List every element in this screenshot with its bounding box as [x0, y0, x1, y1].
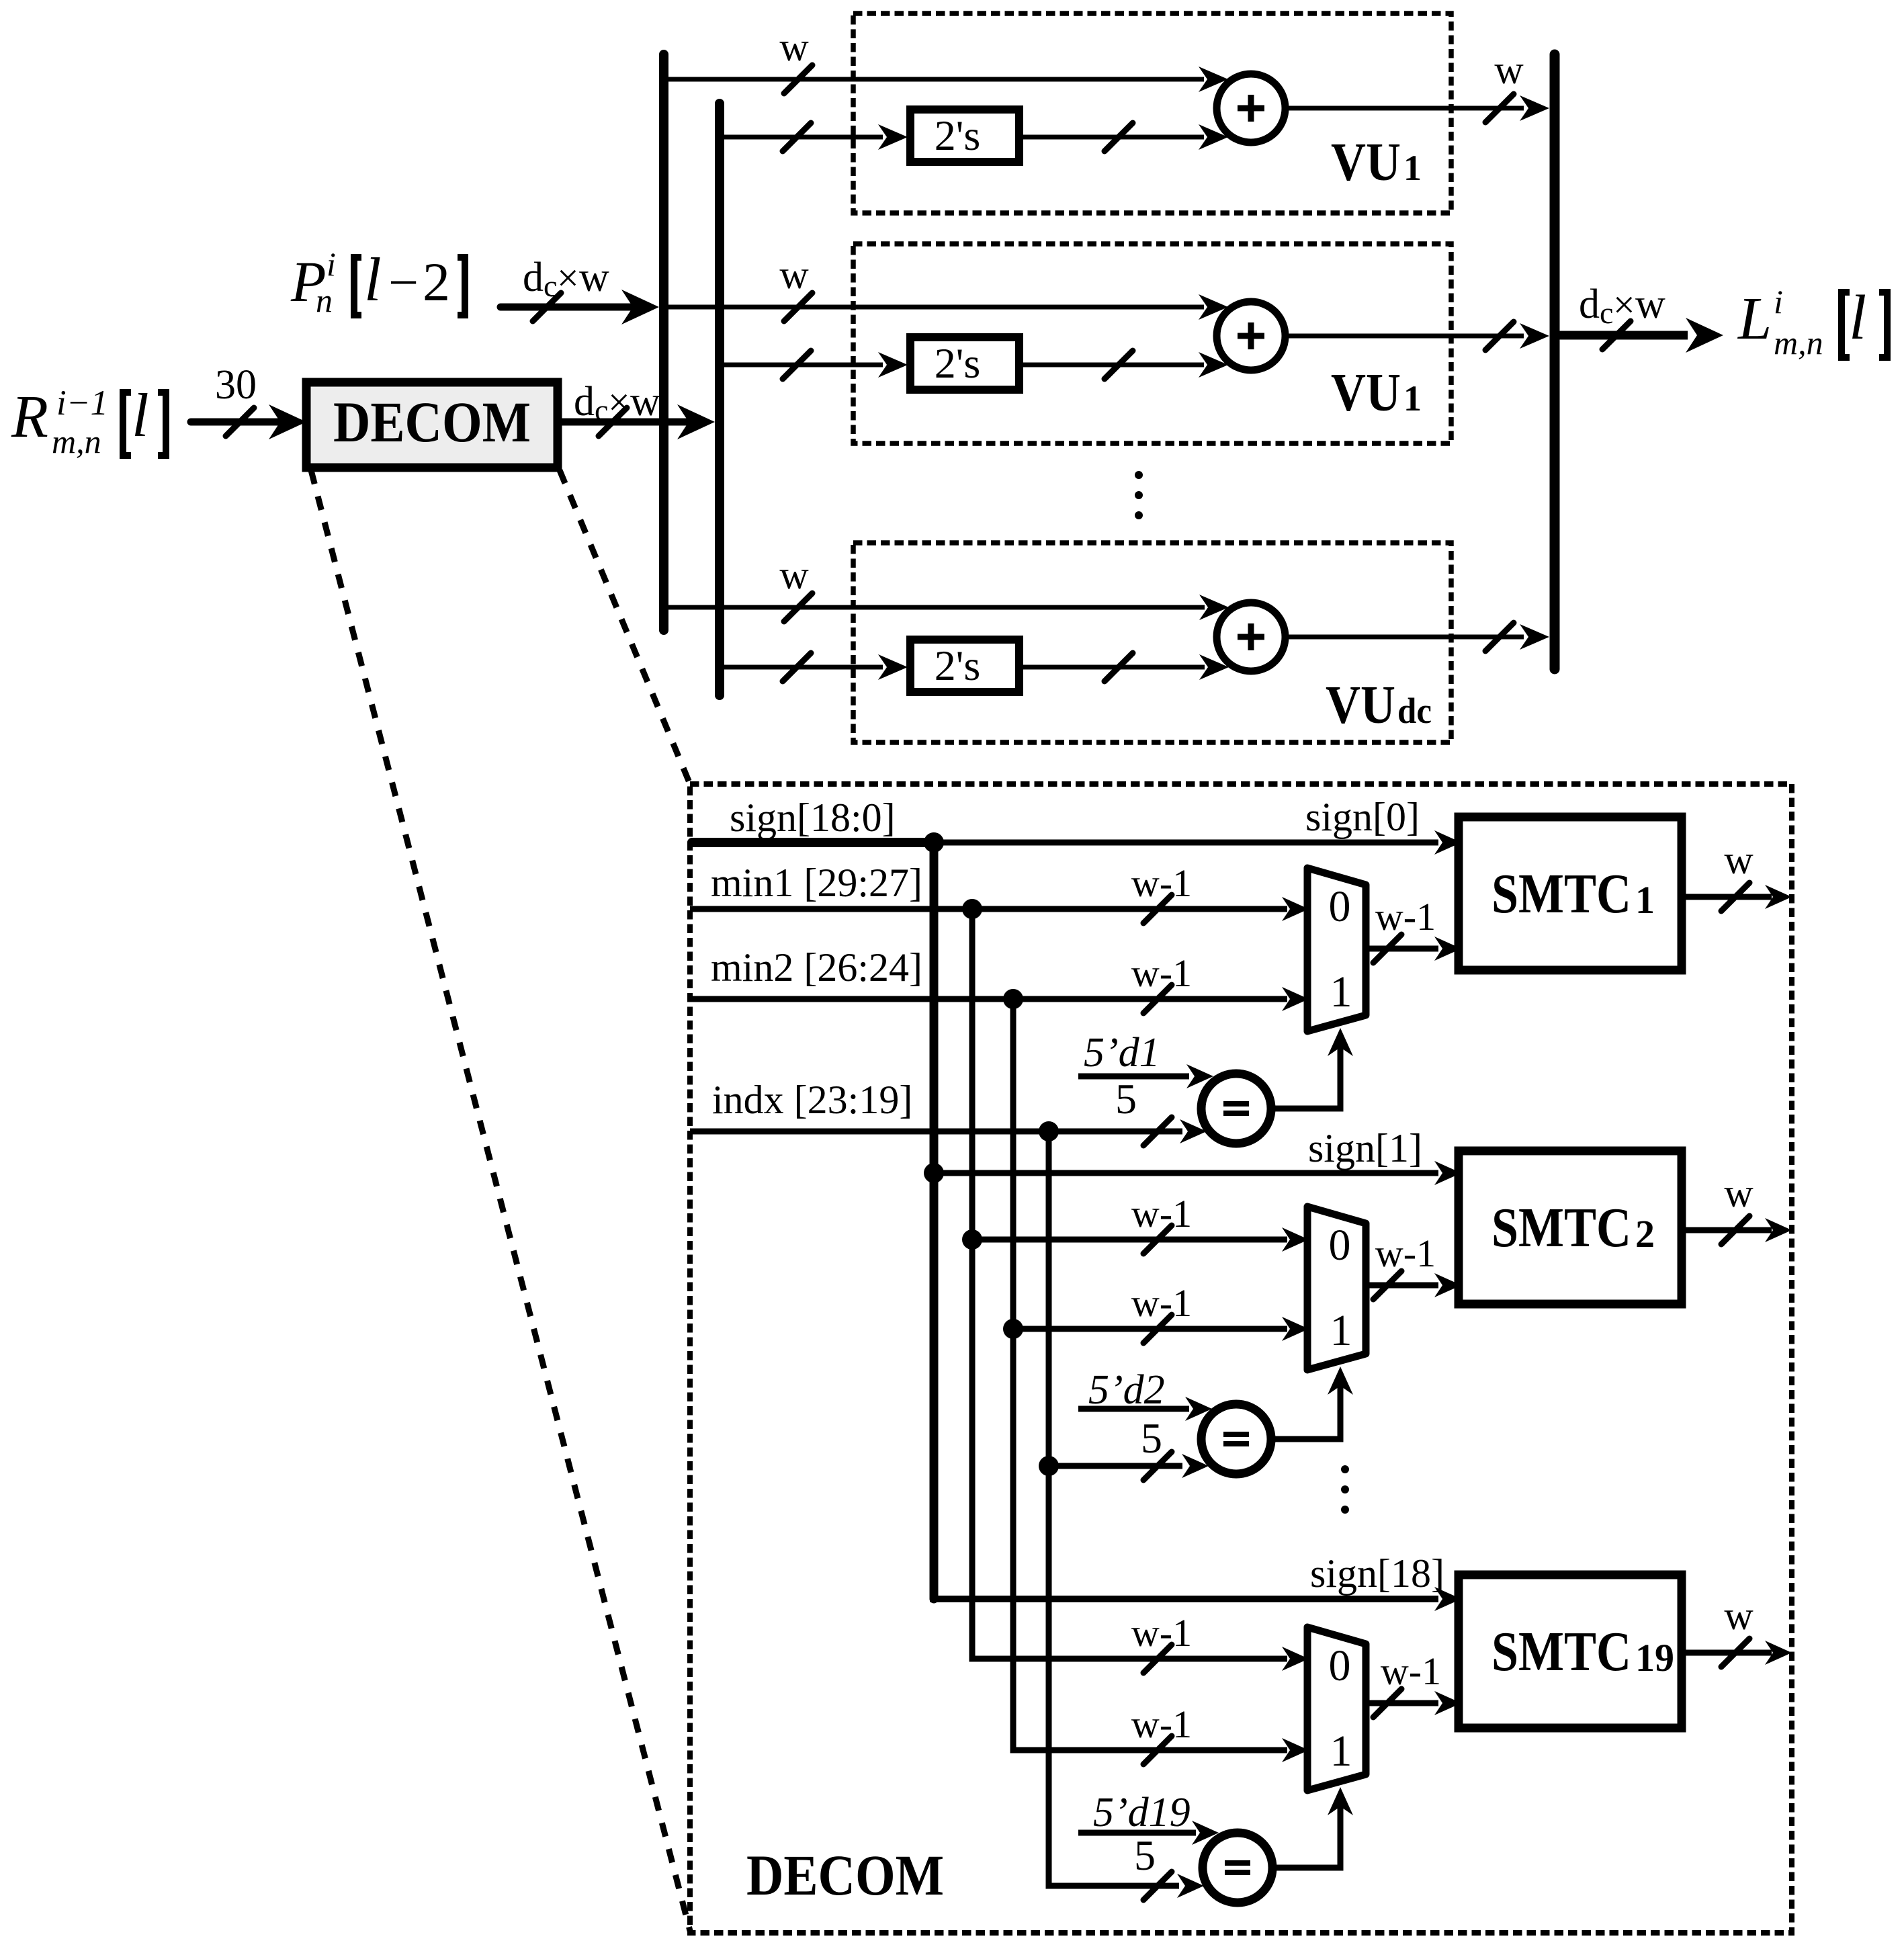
svg-text:1: 1	[1403, 378, 1422, 419]
wire bus1 to adder (w) VU 1	[664, 25, 1228, 93]
VU unit 2 dashed box	[853, 244, 1451, 443]
2s complement block VU 2	[910, 337, 1019, 390]
svg-text:19: 19	[1635, 1636, 1674, 1680]
dashed magnifier line left (DECOM to detail box)	[311, 470, 690, 1931]
svg-text:SMTC: SMTC	[1491, 863, 1631, 925]
wire 2s to adder VU 2	[1023, 351, 1228, 379]
junction indx top	[1039, 1121, 1059, 1141]
adder circle VU 2	[1217, 302, 1285, 370]
svg-text:min2 [26:24]: min2 [26:24]	[711, 945, 922, 990]
svg-text:d: d	[523, 255, 544, 300]
svg-text:2: 2	[423, 251, 450, 312]
svg-text:l: l	[364, 245, 382, 314]
adder circle VU 1	[1217, 74, 1285, 142]
wire eq19 to mux19 select	[1272, 1787, 1353, 1868]
svg-text:2's: 2's	[935, 112, 980, 159]
svg-text:l: l	[132, 381, 149, 449]
svg-text:5’d1: 5’d1	[1084, 1030, 1160, 1076]
svg-text:w-1: w-1	[1131, 1611, 1192, 1655]
junction indx group2	[1039, 1456, 1059, 1476]
min2 [26:24] feed wire	[690, 945, 1309, 1013]
svg-text:1: 1	[1403, 148, 1422, 188]
svg-text:2's: 2's	[935, 642, 980, 689]
output bus bar	[1550, 54, 1560, 669]
svg-text:indx [23:19]: indx [23:19]	[712, 1078, 912, 1122]
svg-text:w: w	[630, 379, 660, 425]
wire indx to eq2	[1049, 1414, 1209, 1480]
svg-text:w: w	[1724, 1594, 1754, 1638]
bus bar 1 (P bus)	[659, 54, 668, 630]
junction min1 group2	[962, 1229, 982, 1250]
min1 trunk vertical	[969, 909, 976, 1659]
vertical ellipsis between group 2 and group 19	[1341, 1465, 1349, 1514]
wire DECOM output d_c x w	[558, 379, 715, 439]
DECOM block	[306, 382, 558, 468]
VU unit 1 dashed box	[853, 13, 1451, 213]
sign[18:0] feed wire	[692, 795, 934, 842]
wire constant 5'd1	[1078, 1030, 1213, 1088]
svg-text:d: d	[1579, 281, 1600, 327]
indx [23:19] feed wire	[690, 1075, 1207, 1145]
VU unit 3 dashed box	[853, 543, 1451, 742]
svg-text:m,n: m,n	[52, 423, 101, 460]
svg-text:i: i	[327, 245, 336, 283]
wire eq2 to mux2 select	[1271, 1367, 1353, 1439]
equality comparator group 19	[1203, 1833, 1272, 1903]
wire min1 to mux2	[972, 1192, 1309, 1254]
wire constant 5'd19	[1078, 1790, 1219, 1845]
svg-text:SMTC: SMTC	[1491, 1197, 1631, 1259]
svg-text:w: w	[779, 25, 809, 69]
wire adder to output bus VU 2	[1285, 322, 1549, 350]
wire SMTC1 output w	[1682, 838, 1792, 911]
svg-text:c: c	[1600, 296, 1613, 330]
wire min1 to mux19	[972, 1579, 1309, 1673]
indx trunk vertical	[1046, 1131, 1052, 1886]
svg-text:dc: dc	[1397, 691, 1432, 731]
svg-text:VU: VU	[1331, 133, 1401, 192]
svg-text:w-1: w-1	[1131, 1281, 1192, 1325]
wire L output d_c x w	[1555, 281, 1723, 353]
wire SMTC19 output w	[1682, 1594, 1792, 1667]
wire R input	[191, 404, 306, 439]
svg-text:l: l	[1849, 283, 1866, 353]
svg-text:w: w	[579, 255, 609, 300]
mux 2:1 group 2	[1307, 1207, 1366, 1370]
svg-text:w: w	[779, 253, 809, 297]
wire mux19 output w-1	[1366, 1649, 1461, 1717]
svg-text:0: 0	[1329, 1641, 1351, 1690]
junction sign/sign[1]	[924, 1163, 944, 1183]
wire sign[18]	[930, 1551, 1461, 1611]
svg-text:w-1: w-1	[1381, 1649, 1441, 1693]
svg-text:0: 0	[1329, 1221, 1351, 1270]
adder circle VU 3	[1217, 603, 1285, 671]
min1 [29:27] feed wire	[690, 861, 1309, 923]
wire P input d_c x w	[501, 255, 659, 324]
svg-text:m,n: m,n	[1774, 324, 1823, 361]
junction min1 top	[962, 899, 982, 919]
wire constant 5'd2	[1078, 1367, 1212, 1421]
svg-text:1: 1	[1330, 967, 1352, 1016]
svg-text:5’d19: 5’d19	[1093, 1790, 1191, 1835]
equality comparator group 1	[1201, 1074, 1271, 1143]
wire mux2 output w-1	[1366, 1231, 1461, 1299]
svg-text:VU: VU	[1331, 363, 1401, 423]
svg-text:i−1: i−1	[56, 384, 108, 423]
svg-text:w: w	[1724, 838, 1754, 882]
2s complement block VU 3	[910, 640, 1019, 692]
wire min2 to mux2	[1013, 1281, 1309, 1343]
junction min2 group2	[1003, 1319, 1023, 1339]
min2 trunk vertical	[1010, 999, 1016, 1750]
svg-text:d: d	[574, 379, 595, 425]
svg-text:DECOM: DECOM	[333, 390, 531, 454]
svg-text:5: 5	[1115, 1075, 1137, 1123]
input formula P_n^i[l-2]	[290, 245, 465, 319]
svg-text:w-1: w-1	[1131, 951, 1192, 995]
svg-text:w-1: w-1	[1375, 895, 1436, 939]
svg-text:VU: VU	[1326, 676, 1395, 735]
wire 2s to adder VU 1	[1023, 123, 1228, 151]
svg-text:w-1: w-1	[1131, 1192, 1192, 1235]
svg-text:1: 1	[1330, 1306, 1352, 1355]
svg-text:sign[18:0]: sign[18:0]	[730, 795, 896, 840]
2s complement block VU 1	[910, 110, 1019, 162]
svg-text:5: 5	[1134, 1831, 1156, 1879]
svg-text:5: 5	[1141, 1414, 1162, 1462]
wire adder to output bus VU 1	[1285, 48, 1549, 122]
svg-text:i: i	[1774, 283, 1783, 320]
svg-text:sign[0]: sign[0]	[1305, 795, 1420, 839]
wire eq1 to mux1 select	[1271, 1028, 1353, 1109]
mux 2:1 group 19	[1307, 1627, 1366, 1790]
svg-text:w: w	[1724, 1171, 1754, 1215]
svg-text:w: w	[779, 553, 809, 597]
svg-text:2's: 2's	[935, 339, 980, 387]
svg-text:w: w	[1494, 48, 1524, 92]
svg-text:L: L	[1737, 286, 1772, 352]
svg-text:w-1: w-1	[1375, 1231, 1436, 1275]
svg-text:R: R	[11, 384, 48, 450]
wire min2 to mux19	[1013, 1579, 1309, 1764]
svg-text:min1 [29:27]: min1 [29:27]	[711, 861, 922, 905]
equality comparator group 2	[1201, 1404, 1271, 1474]
svg-text:sign[18]: sign[18]	[1310, 1551, 1444, 1596]
svg-text:w-1: w-1	[1131, 1702, 1192, 1746]
wire sign[1]	[934, 1126, 1461, 1185]
svg-text:1: 1	[1635, 878, 1655, 922]
svg-text:DECOM: DECOM	[746, 1843, 944, 1907]
svg-text:30: 30	[215, 362, 257, 408]
output formula L_mn^i[l]	[1737, 283, 1887, 361]
wire bus2 to 2s-complement VU 2	[720, 351, 908, 379]
svg-text:2: 2	[1635, 1212, 1655, 1256]
svg-text:1: 1	[1330, 1727, 1352, 1776]
wire SMTC2 output w	[1682, 1171, 1792, 1244]
junction min2 top	[1003, 989, 1023, 1009]
svg-text:−: −	[388, 253, 419, 312]
svg-text:n: n	[316, 281, 333, 319]
svg-text:w-1: w-1	[1131, 861, 1192, 905]
junction sign/sign[0]	[924, 832, 944, 853]
bus bar 2 (DECOM bus)	[715, 103, 724, 695]
SMTC1 block	[1459, 817, 1682, 970]
wire 2s to adder VU 3	[1023, 653, 1229, 681]
SMTC2 block	[1459, 1151, 1682, 1304]
svg-text:0: 0	[1329, 882, 1351, 931]
svg-text:w: w	[1635, 281, 1665, 327]
wire bus1 to adder (w) VU 3	[664, 553, 1229, 621]
dashed magnifier line right (DECOM to detail box)	[560, 470, 690, 784]
svg-text:SMTC: SMTC	[1491, 1620, 1631, 1683]
wire bus1 to adder (w) VU 2	[664, 253, 1228, 321]
sign trunk vertical	[930, 842, 939, 1599]
wire bus2 to 2s-complement VU 3	[720, 653, 908, 681]
svg-text:sign[1]: sign[1]	[1308, 1126, 1422, 1170]
wire indx to eq19	[1049, 1814, 1204, 1900]
input formula R_mn^(i-1)[l]	[11, 381, 166, 460]
wire adder to output bus VU 3	[1285, 623, 1549, 651]
SMTC19 block	[1459, 1575, 1682, 1728]
DECOM detail dashed box	[690, 784, 1792, 1933]
wire mux1 output w-1	[1366, 895, 1461, 963]
wire sign[0]	[934, 795, 1461, 855]
wire bus2 to 2s-complement VU 1	[720, 123, 908, 151]
vertical ellipsis between VU2 and VUdc	[1135, 471, 1143, 519]
mux 2:1 group 1	[1307, 868, 1366, 1031]
